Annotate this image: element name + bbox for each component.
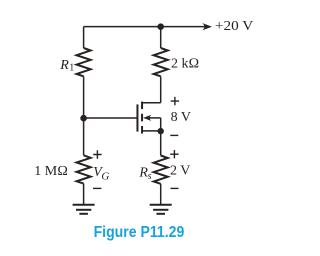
svg-text:1 MΩ: 1 MΩ <box>34 164 68 179</box>
svg-text:1: 1 <box>69 63 74 74</box>
svg-text:2 kΩ: 2 kΩ <box>171 56 199 71</box>
svg-text:G: G <box>101 171 109 183</box>
svg-text:s: s <box>148 171 152 182</box>
svg-text:R: R <box>59 58 69 73</box>
svg-text:8 V: 8 V <box>171 110 191 125</box>
svg-text:Figure P11.29: Figure P11.29 <box>94 224 185 241</box>
svg-text:2 V: 2 V <box>170 164 190 179</box>
svg-text:+20 V: +20 V <box>215 19 253 34</box>
